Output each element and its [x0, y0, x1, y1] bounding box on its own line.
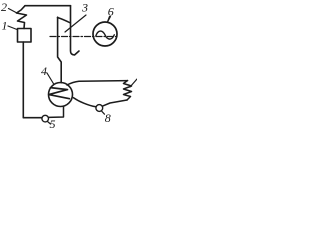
svg-text:5: 5 [50, 117, 56, 131]
svg-text:6: 6 [108, 5, 114, 19]
svg-text:1: 1 [2, 19, 8, 33]
svg-text:3: 3 [81, 1, 88, 15]
svg-text:8: 8 [105, 111, 111, 125]
svg-text:2: 2 [1, 0, 7, 14]
svg-text:4: 4 [41, 64, 47, 78]
